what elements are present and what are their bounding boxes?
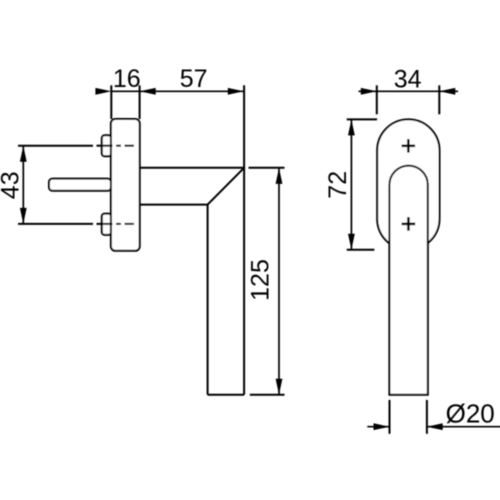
center line screw bottom: solid ext part: [18, 223, 93, 225]
screw mark bottom +: [402, 217, 416, 231]
handle neck + grip (front view): [389, 166, 427, 395]
screw mark top +: [402, 139, 416, 153]
svg-text:125: 125: [247, 259, 275, 301]
ext line 34 right: [438, 85, 440, 114]
arrow 57 right (points right): [228, 88, 244, 95]
arrow 16 left (points right): [95, 88, 111, 95]
screw head top: [102, 135, 111, 156]
dim line 43: [22, 146, 24, 224]
arrow 16/57 middle (points left): [140, 88, 156, 95]
svg-text:43: 43: [0, 171, 25, 199]
svg-text:16: 16: [113, 65, 141, 93]
rosette (front view, stadium): [377, 119, 439, 249]
handle grip left edge: [207, 205, 209, 395]
svg-text:34: 34: [394, 66, 422, 94]
arrow 34 left (points right): [361, 88, 377, 95]
ext line 125 top: [249, 167, 285, 169]
ext line 72 top: [347, 118, 377, 120]
handle corner diagonal: [208, 168, 245, 205]
arrow 125 bottom (points down): [276, 379, 283, 395]
svg-text:72: 72: [324, 171, 352, 199]
arrow 34 right (points left): [439, 88, 455, 95]
screw head bottom: [102, 214, 111, 235]
ext line 125 bottom: [250, 394, 285, 396]
ext line 16 left: [110, 85, 112, 119]
ext line 16 right: [139, 85, 141, 119]
arrow 125 top (points up): [276, 168, 283, 184]
center line screw top: solid ext part: [18, 145, 93, 147]
ext line 72 bottom: [347, 249, 375, 251]
rosette plate (edge view): [111, 119, 140, 251]
dim line 34: [359, 90, 440, 92]
ext line d20 right: [426, 400, 428, 434]
dim line 72: [350, 119, 352, 249]
dim line 125: [278, 168, 280, 395]
handle grip bottom: [208, 394, 245, 396]
dim line d20 right segment: [427, 426, 500, 428]
arrows: [20, 88, 455, 430]
spindle: [49, 179, 111, 191]
dim line 16 + 57: [111, 90, 243, 92]
arrow 72 bottom (points down): [348, 234, 355, 250]
ext line 34 left: [376, 85, 378, 114]
handle arm top line: [140, 167, 244, 169]
svg-text:Ø20: Ø20: [446, 399, 495, 429]
center line screw top: dashes: [97, 145, 113, 147]
handle grip right edge + 57 extension line: [243, 85, 245, 394]
svg-text:57: 57: [180, 65, 208, 93]
arrow d20 right (points left): [427, 423, 443, 430]
handle arm bottom line: [140, 204, 208, 206]
ext line d20 left: [389, 400, 391, 434]
arrow 72 top (points up): [348, 119, 355, 135]
arrow 43 top (points up): [20, 146, 27, 162]
arrow 43 bottom (points down): [20, 208, 27, 224]
dim line d20 left segment: [367, 426, 389, 428]
arrow d20 left (points right): [374, 423, 390, 430]
center line screw bottom: dashes: [97, 223, 113, 225]
